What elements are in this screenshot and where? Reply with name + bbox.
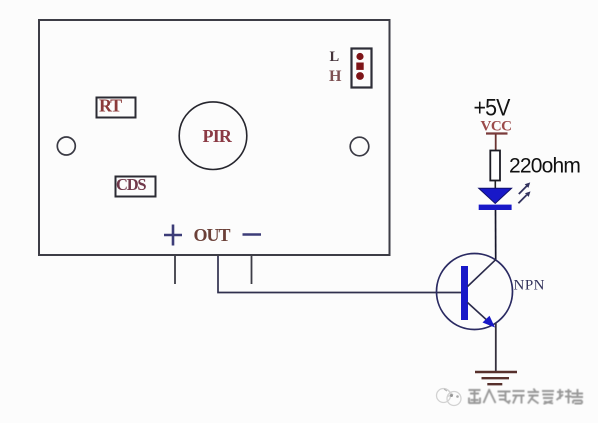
svg-text:+5V: +5V (474, 95, 511, 122)
svg-text:PIR: PIR (203, 126, 233, 146)
svg-text:NPN: NPN (514, 278, 546, 294)
svg-text:CDS: CDS (116, 175, 146, 194)
svg-text:VCC: VCC (481, 119, 512, 135)
svg-text:220ohm: 220ohm (509, 155, 580, 178)
svg-text:H: H (329, 68, 342, 85)
svg-text:RT: RT (99, 96, 122, 116)
svg-text:OUT: OUT (194, 225, 231, 245)
svg-text:L: L (330, 49, 340, 65)
